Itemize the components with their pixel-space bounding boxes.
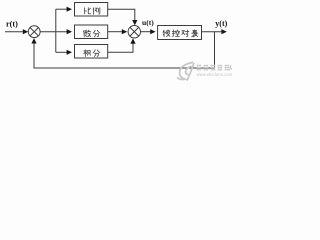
svg-text:r(t): r(t) <box>6 20 18 29</box>
svg-text:u(t): u(t) <box>142 18 154 27</box>
svg-text:www.elecfans.com: www.elecfans.com <box>197 72 233 77</box>
svg-text:y(t): y(t) <box>215 19 227 28</box>
